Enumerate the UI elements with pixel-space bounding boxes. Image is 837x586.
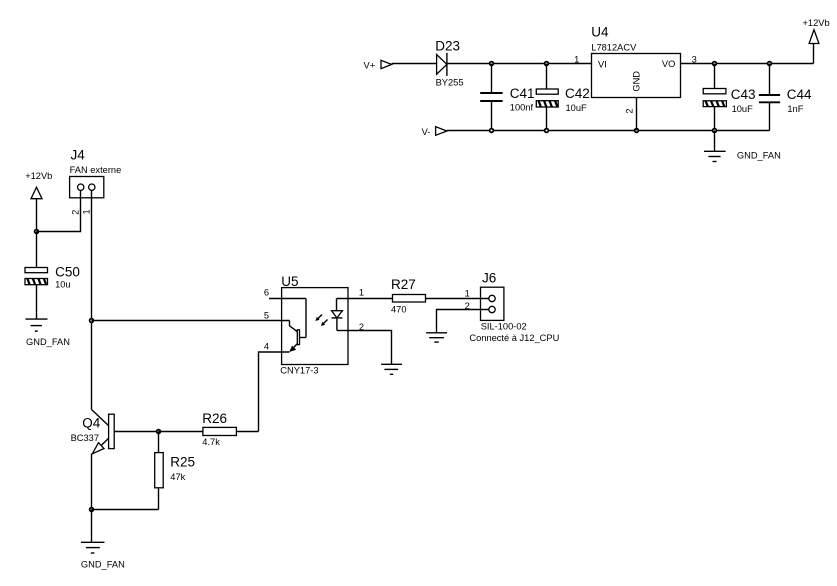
svg-text:10uF: 10uF <box>732 104 754 114</box>
wire V- rail <box>447 130 770 132</box>
junction <box>490 129 494 133</box>
svg-text:Q4: Q4 <box>82 415 101 430</box>
svg-text:VI: VI <box>598 59 607 69</box>
wire V+ to D23 <box>392 63 437 65</box>
wire U5 pin1 to R27 <box>337 298 393 300</box>
svg-text:V-: V- <box>422 127 431 137</box>
svg-text:1: 1 <box>465 288 470 298</box>
ground GND_FAN (Q4) <box>81 510 125 570</box>
junction <box>713 129 717 133</box>
connector J6 <box>465 270 560 343</box>
junction <box>545 129 549 133</box>
LED of U5 <box>332 299 349 331</box>
svg-text:CNY17-3: CNY17-3 <box>280 365 318 375</box>
terminal V- <box>422 127 447 137</box>
regulator U4 <box>591 25 680 98</box>
svg-text:6: 6 <box>264 288 269 298</box>
svg-text:C42: C42 <box>565 86 590 101</box>
wire Q4 emitter down <box>91 454 93 510</box>
svg-text:4.7k: 4.7k <box>202 437 220 447</box>
svg-text:FAN externe: FAN externe <box>70 165 122 175</box>
capacitor C41 <box>480 64 534 131</box>
svg-text:VO: VO <box>662 59 675 69</box>
junction <box>635 129 639 133</box>
svg-text:J6: J6 <box>482 270 496 285</box>
svg-text:Connecté à J12_CPU: Connecté à J12_CPU <box>469 333 559 343</box>
svg-text:SIL-100-02: SIL-100-02 <box>481 322 527 332</box>
svg-text:L7812ACV: L7812ACV <box>591 43 637 53</box>
connector J4 <box>70 148 122 215</box>
wire emitter node to R25 bottom <box>92 509 159 511</box>
svg-text:GND: GND <box>631 71 641 92</box>
svg-text:BY255: BY255 <box>436 78 464 88</box>
capacitor C44 <box>759 64 812 131</box>
svg-text:C41: C41 <box>510 86 535 101</box>
svg-text:U5: U5 <box>281 274 298 289</box>
svg-text:BC337: BC337 <box>71 433 99 443</box>
svg-text:R26: R26 <box>202 411 227 426</box>
wire J4 pin1 down to Q4 collector <box>91 190 93 409</box>
wire R27 to J6 pin 1 <box>425 298 489 300</box>
transistor Q4 <box>71 410 115 454</box>
svg-text:U4: U4 <box>591 25 609 40</box>
pin 6 stub and internal base wire <box>269 299 306 338</box>
junction <box>90 319 94 323</box>
svg-text:C43: C43 <box>731 87 756 102</box>
ground (U5 pin2) <box>381 364 402 374</box>
wire U4 VO to +12Vb <box>681 63 814 65</box>
capacitor C43 <box>703 64 755 131</box>
svg-text:100nf: 100nf <box>510 103 534 113</box>
svg-text:10u: 10u <box>55 280 71 290</box>
svg-text:GND_FAN: GND_FAN <box>26 337 70 347</box>
diode D23 <box>435 39 463 88</box>
svg-text:4: 4 <box>264 342 269 352</box>
svg-text:2: 2 <box>625 108 635 113</box>
svg-text:GND_FAN: GND_FAN <box>737 151 781 161</box>
wire U5 pin2 to ground <box>348 331 392 365</box>
svg-text:J4: J4 <box>71 148 86 163</box>
svg-text:V+: V+ <box>364 61 376 71</box>
svg-text:1: 1 <box>82 209 92 214</box>
junction <box>35 230 39 234</box>
wire U4 GND pin 2 <box>636 98 638 131</box>
svg-text:1: 1 <box>574 54 579 64</box>
ground GND_FAN (top) <box>704 131 781 162</box>
wire R26 to U5 pin 4 <box>259 352 290 432</box>
svg-text:2: 2 <box>70 210 80 215</box>
junction <box>490 62 494 66</box>
svg-text:470: 470 <box>391 304 407 314</box>
resistor R26 <box>159 411 259 447</box>
ground (J6 pin2) <box>426 333 447 342</box>
light arrows <box>316 315 328 327</box>
svg-text:R27: R27 <box>391 277 416 292</box>
wire D23 to U4 VI <box>447 63 592 65</box>
svg-text:+12Vb: +12Vb <box>803 18 830 28</box>
junction <box>90 508 94 512</box>
resistor R25 <box>155 432 195 510</box>
capacitor C50 <box>25 232 80 320</box>
optocoupler U5 <box>280 274 348 375</box>
svg-text:+12Vb: +12Vb <box>25 171 52 181</box>
wire node to U5 pin 5 <box>92 320 290 322</box>
wire J6 pin2 to ground <box>437 310 490 333</box>
junction <box>768 62 772 66</box>
terminal V+ <box>364 60 392 70</box>
svg-text:1nF: 1nF <box>787 104 803 114</box>
svg-text:C44: C44 <box>787 87 812 102</box>
junction <box>713 62 717 66</box>
svg-text:5: 5 <box>264 311 269 321</box>
ground GND_FAN (C50) <box>25 319 70 347</box>
capacitor C42 <box>536 64 589 131</box>
svg-text:R25: R25 <box>170 455 195 470</box>
svg-text:C50: C50 <box>55 265 80 280</box>
svg-text:D23: D23 <box>435 39 460 54</box>
junction <box>545 62 549 66</box>
wire to J4 pin 2 <box>37 189 81 232</box>
power +12Vb (left) <box>25 171 52 231</box>
svg-text:47k: 47k <box>170 472 185 482</box>
svg-text:1: 1 <box>359 288 364 298</box>
resistor R27 <box>391 277 426 314</box>
svg-text:GND_FAN: GND_FAN <box>81 560 125 570</box>
power +12Vb <box>803 18 830 64</box>
svg-text:10uF: 10uF <box>566 103 588 113</box>
wire Q4 base <box>114 431 158 433</box>
phototransistor <box>289 321 299 353</box>
junction <box>157 430 161 434</box>
